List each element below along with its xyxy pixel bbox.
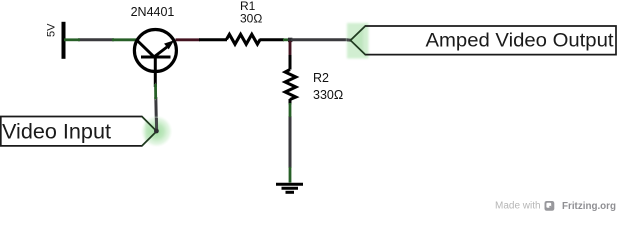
node A junction [288, 38, 292, 42]
svg-text:Video Input: Video Input [2, 119, 111, 143]
wire R2 to ground [289, 103, 292, 183]
svg-text:5V: 5V [46, 23, 58, 37]
resistor R2 [285, 55, 296, 105]
svg-text:330Ω: 330Ω [313, 88, 343, 102]
power +5V symbol [46, 22, 66, 59]
resistor R1 [199, 34, 284, 44]
svg-text:Amped Video Output: Amped Video Output [426, 30, 615, 52]
wire node A to output flag [291, 38, 351, 41]
R2 top pin stub (red) [289, 41, 292, 56]
svg-text:Made with: Made with [495, 201, 541, 212]
svg-text:30Ω: 30Ω [240, 12, 262, 26]
ground [276, 184, 303, 192]
wire Q1 base to input flag [156, 84, 157, 130]
watermark "Made with Fritzing.org" [495, 200, 616, 212]
transistor Q1 2N4401 [134, 30, 176, 88]
svg-text:Fritzing.org: Fritzing.org [562, 200, 616, 212]
Q1 emitter pin stub (red) [176, 38, 201, 41]
wire 5V to Q1 collector [64, 38, 137, 41]
svg-text:2N4401: 2N4401 [131, 5, 175, 19]
net label flag "Video Input" [1, 115, 173, 147]
net label flag "Amped Video Output" [347, 23, 616, 59]
wire R1 to node A (green) [283, 37, 292, 43]
svg-text:R2: R2 [313, 71, 329, 85]
